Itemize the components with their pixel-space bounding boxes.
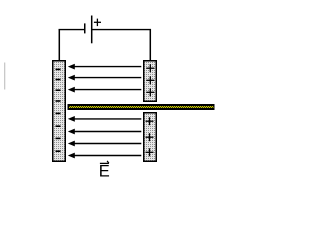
negative charge sign 8 bbox=[56, 150, 61, 152]
field line arrow 7 bbox=[68, 153, 142, 159]
field line arrow 1 bbox=[68, 64, 142, 70]
left capacitor plate (negative) bbox=[53, 61, 66, 162]
battery V1 positive terminal (long line) bbox=[91, 16, 93, 44]
negative charge sign 6 bbox=[56, 125, 61, 127]
right capacitor plate lower segment (positive) bbox=[144, 113, 157, 162]
positive charge sign 5 bbox=[146, 133, 154, 141]
positive charge sign 6 bbox=[146, 148, 154, 156]
negative charge sign 2 bbox=[56, 79, 61, 81]
field line arrow 6 bbox=[68, 141, 142, 147]
wire down to left plate (vertical) bbox=[58, 29, 60, 61]
wire down to right plate (vertical) bbox=[149, 29, 151, 61]
negative charge sign 5 bbox=[56, 112, 61, 114]
right capacitor plate upper segment (positive) bbox=[144, 61, 157, 102]
negative charge sign 1 bbox=[56, 68, 61, 70]
positive charge sign 4 bbox=[146, 117, 154, 125]
svg-text:E: E bbox=[99, 163, 110, 181]
field line arrow 4 bbox=[68, 116, 142, 122]
positive charge sign 1 bbox=[146, 64, 154, 72]
positive charge sign 3 bbox=[146, 88, 154, 96]
negative charge sign 7 bbox=[56, 137, 61, 139]
battery V1 negative terminal (short line) bbox=[84, 23, 86, 33]
field line arrow 5 bbox=[68, 129, 142, 135]
negative charge sign 4 bbox=[56, 100, 61, 102]
negative charge sign 3 bbox=[56, 89, 61, 91]
wire from battery positive to right plate (horizontal) bbox=[92, 29, 151, 31]
electric field label E with vector arrow bbox=[99, 161, 110, 181]
field line arrow 2 bbox=[68, 75, 142, 81]
positive charge sign 2 bbox=[146, 76, 154, 84]
dielectric rod inserted through capacitor bbox=[68, 104, 215, 110]
stray gray line bbox=[4, 63, 5, 90]
field line arrow 3 bbox=[68, 87, 142, 93]
battery + polarity label bbox=[94, 19, 101, 27]
wire from battery negative to left plate (horizontal) bbox=[59, 29, 85, 31]
